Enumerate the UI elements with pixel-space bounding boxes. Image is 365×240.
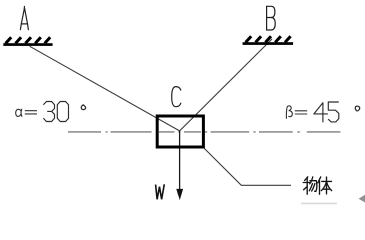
label wuti (object) char WU: [303, 177, 317, 194]
wire rope AC: [30, 46, 180, 131]
value 45: [314, 102, 339, 122]
label beta: [286, 106, 292, 119]
wire leader to label: [204, 149, 291, 186]
label C: [172, 87, 181, 107]
wire weight line W: [179, 131, 181, 190]
label A: [20, 6, 28, 29]
faint underline artifact: [301, 202, 337, 204]
cursor artifact bottom right: [359, 194, 365, 202]
equals sign right: [295, 111, 307, 114]
degree right: [355, 106, 359, 111]
arrowhead W: [176, 189, 183, 200]
label alpha: [16, 109, 22, 116]
centerline dash-dot horizontal through node C: [68, 131, 340, 133]
degree left: [81, 105, 85, 110]
label B: [267, 6, 276, 30]
wire rope BC: [180, 39, 272, 131]
support bar B: [243, 42, 294, 45]
hatching A: [6, 37, 51, 43]
label wuti (object) char TI: [318, 177, 332, 194]
value 30: [43, 102, 68, 122]
equals sign left: [25, 111, 37, 114]
box C (object): [157, 116, 203, 147]
support bar A: [3, 43, 52, 46]
label W: [156, 184, 165, 199]
hatching B: [246, 36, 291, 42]
